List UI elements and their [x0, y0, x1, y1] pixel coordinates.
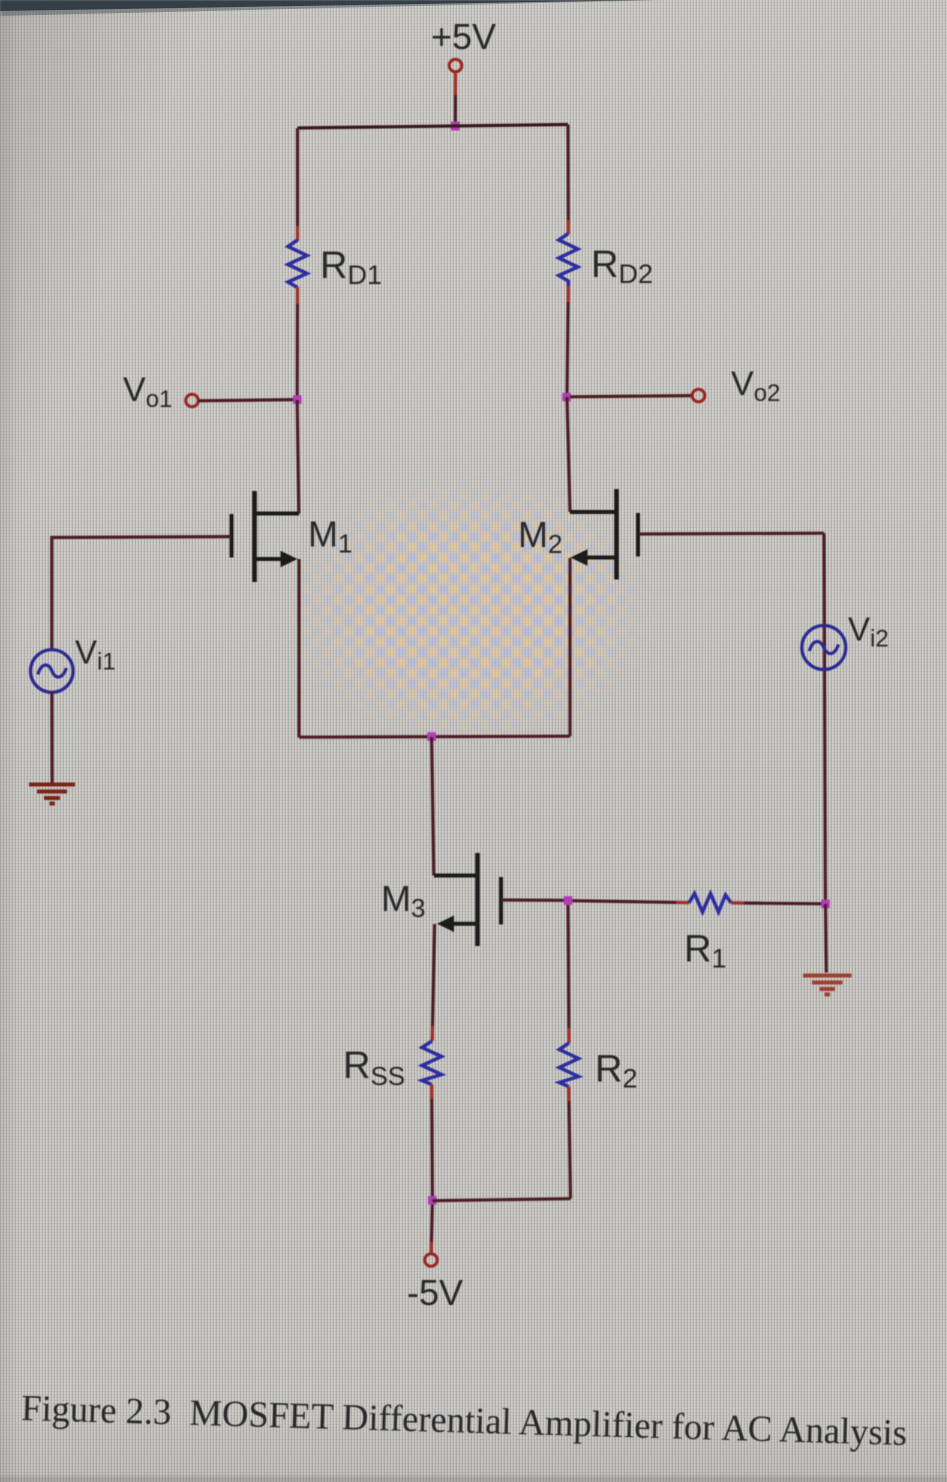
node M3 gate [564, 896, 573, 905]
wire R1 to Vi2 branch [731, 901, 825, 905]
node Vo1 [293, 395, 302, 404]
wire Vo2 [570, 396, 692, 397]
wire left branch lower [297, 400, 299, 514]
wire right branch mid [567, 286, 568, 397]
resistor RD1 [288, 240, 307, 288]
svg-text:Figure 2.3 MOSFET Differentia: Figure 2.3 MOSFET Differential Amplifier… [21, 1388, 908, 1454]
transistor M1 [232, 491, 300, 582]
ground right [803, 976, 852, 995]
node R1 right [821, 900, 830, 909]
svg-text:Vi2: Vi2 [848, 611, 889, 653]
terminal -5V [425, 1254, 438, 1267]
wire M1 gate [52, 537, 231, 651]
wire M2 source to common rail [568, 558, 571, 736]
svg-text:M2: M2 [518, 514, 562, 559]
source Vi2 [802, 626, 846, 670]
ground left [29, 785, 75, 804]
source Vi1 [31, 650, 74, 693]
terminal Vo1 [186, 394, 199, 407]
wire bottom rail [432, 1199, 570, 1201]
wire right branch upper [566, 125, 569, 235]
wire common source rail [299, 736, 570, 737]
resistor R2 [559, 1043, 578, 1087]
transistor M2 [570, 489, 638, 580]
resistor RSS [422, 1041, 442, 1085]
wire M3 source to RSS [432, 924, 434, 1041]
svg-text:RD1: RD1 [320, 245, 382, 290]
wire left branch mid [296, 287, 299, 400]
resistor R1 [689, 894, 731, 913]
terminal +5V [449, 59, 462, 72]
svg-text:Vo1: Vo1 [123, 371, 172, 413]
wire Vi2 node to ground [824, 904, 828, 973]
node Vo2 [562, 393, 571, 402]
wire M1 source to common rail [297, 559, 300, 737]
wire common node to M3 drain [432, 737, 434, 876]
wire gate node to R1 [572, 901, 689, 903]
svg-text:Vo2: Vo2 [731, 365, 780, 407]
wire M3 gate [502, 898, 565, 901]
svg-text:-5V: -5V [407, 1272, 463, 1313]
wire Vo1 [199, 400, 298, 401]
wire +5V terminal to top rail [454, 72, 457, 126]
wire right branch lower [567, 397, 570, 512]
resistor RD2 [559, 234, 578, 287]
node top rail [451, 122, 460, 131]
wire R2 branch upper [568, 905, 569, 1043]
node common sources [427, 732, 436, 741]
transistor M3 [434, 853, 501, 946]
svg-text:RSS: RSS [343, 1045, 405, 1091]
wire node to -5V terminal [431, 1205, 432, 1254]
svg-text:M3: M3 [381, 878, 425, 923]
svg-text:Vi1: Vi1 [75, 634, 116, 676]
svg-text:RD2: RD2 [591, 244, 653, 289]
svg-text:R1: R1 [684, 929, 726, 974]
terminal Vo2 [692, 389, 705, 402]
wire top rail [298, 125, 569, 129]
svg-text:+5V: +5V [431, 16, 496, 57]
wire left branch upper [296, 128, 299, 241]
svg-text:R2: R2 [595, 1049, 637, 1094]
wire Vi2 branch [824, 533, 825, 904]
wire Vi1 to ground [50, 692, 53, 784]
wire RSS to bottom node [430, 1085, 434, 1198]
wire R2 to bottom rail [569, 1087, 571, 1199]
node -5V [428, 1196, 437, 1205]
wire M2 gate [639, 532, 825, 536]
svg-text:M1: M1 [308, 514, 352, 559]
